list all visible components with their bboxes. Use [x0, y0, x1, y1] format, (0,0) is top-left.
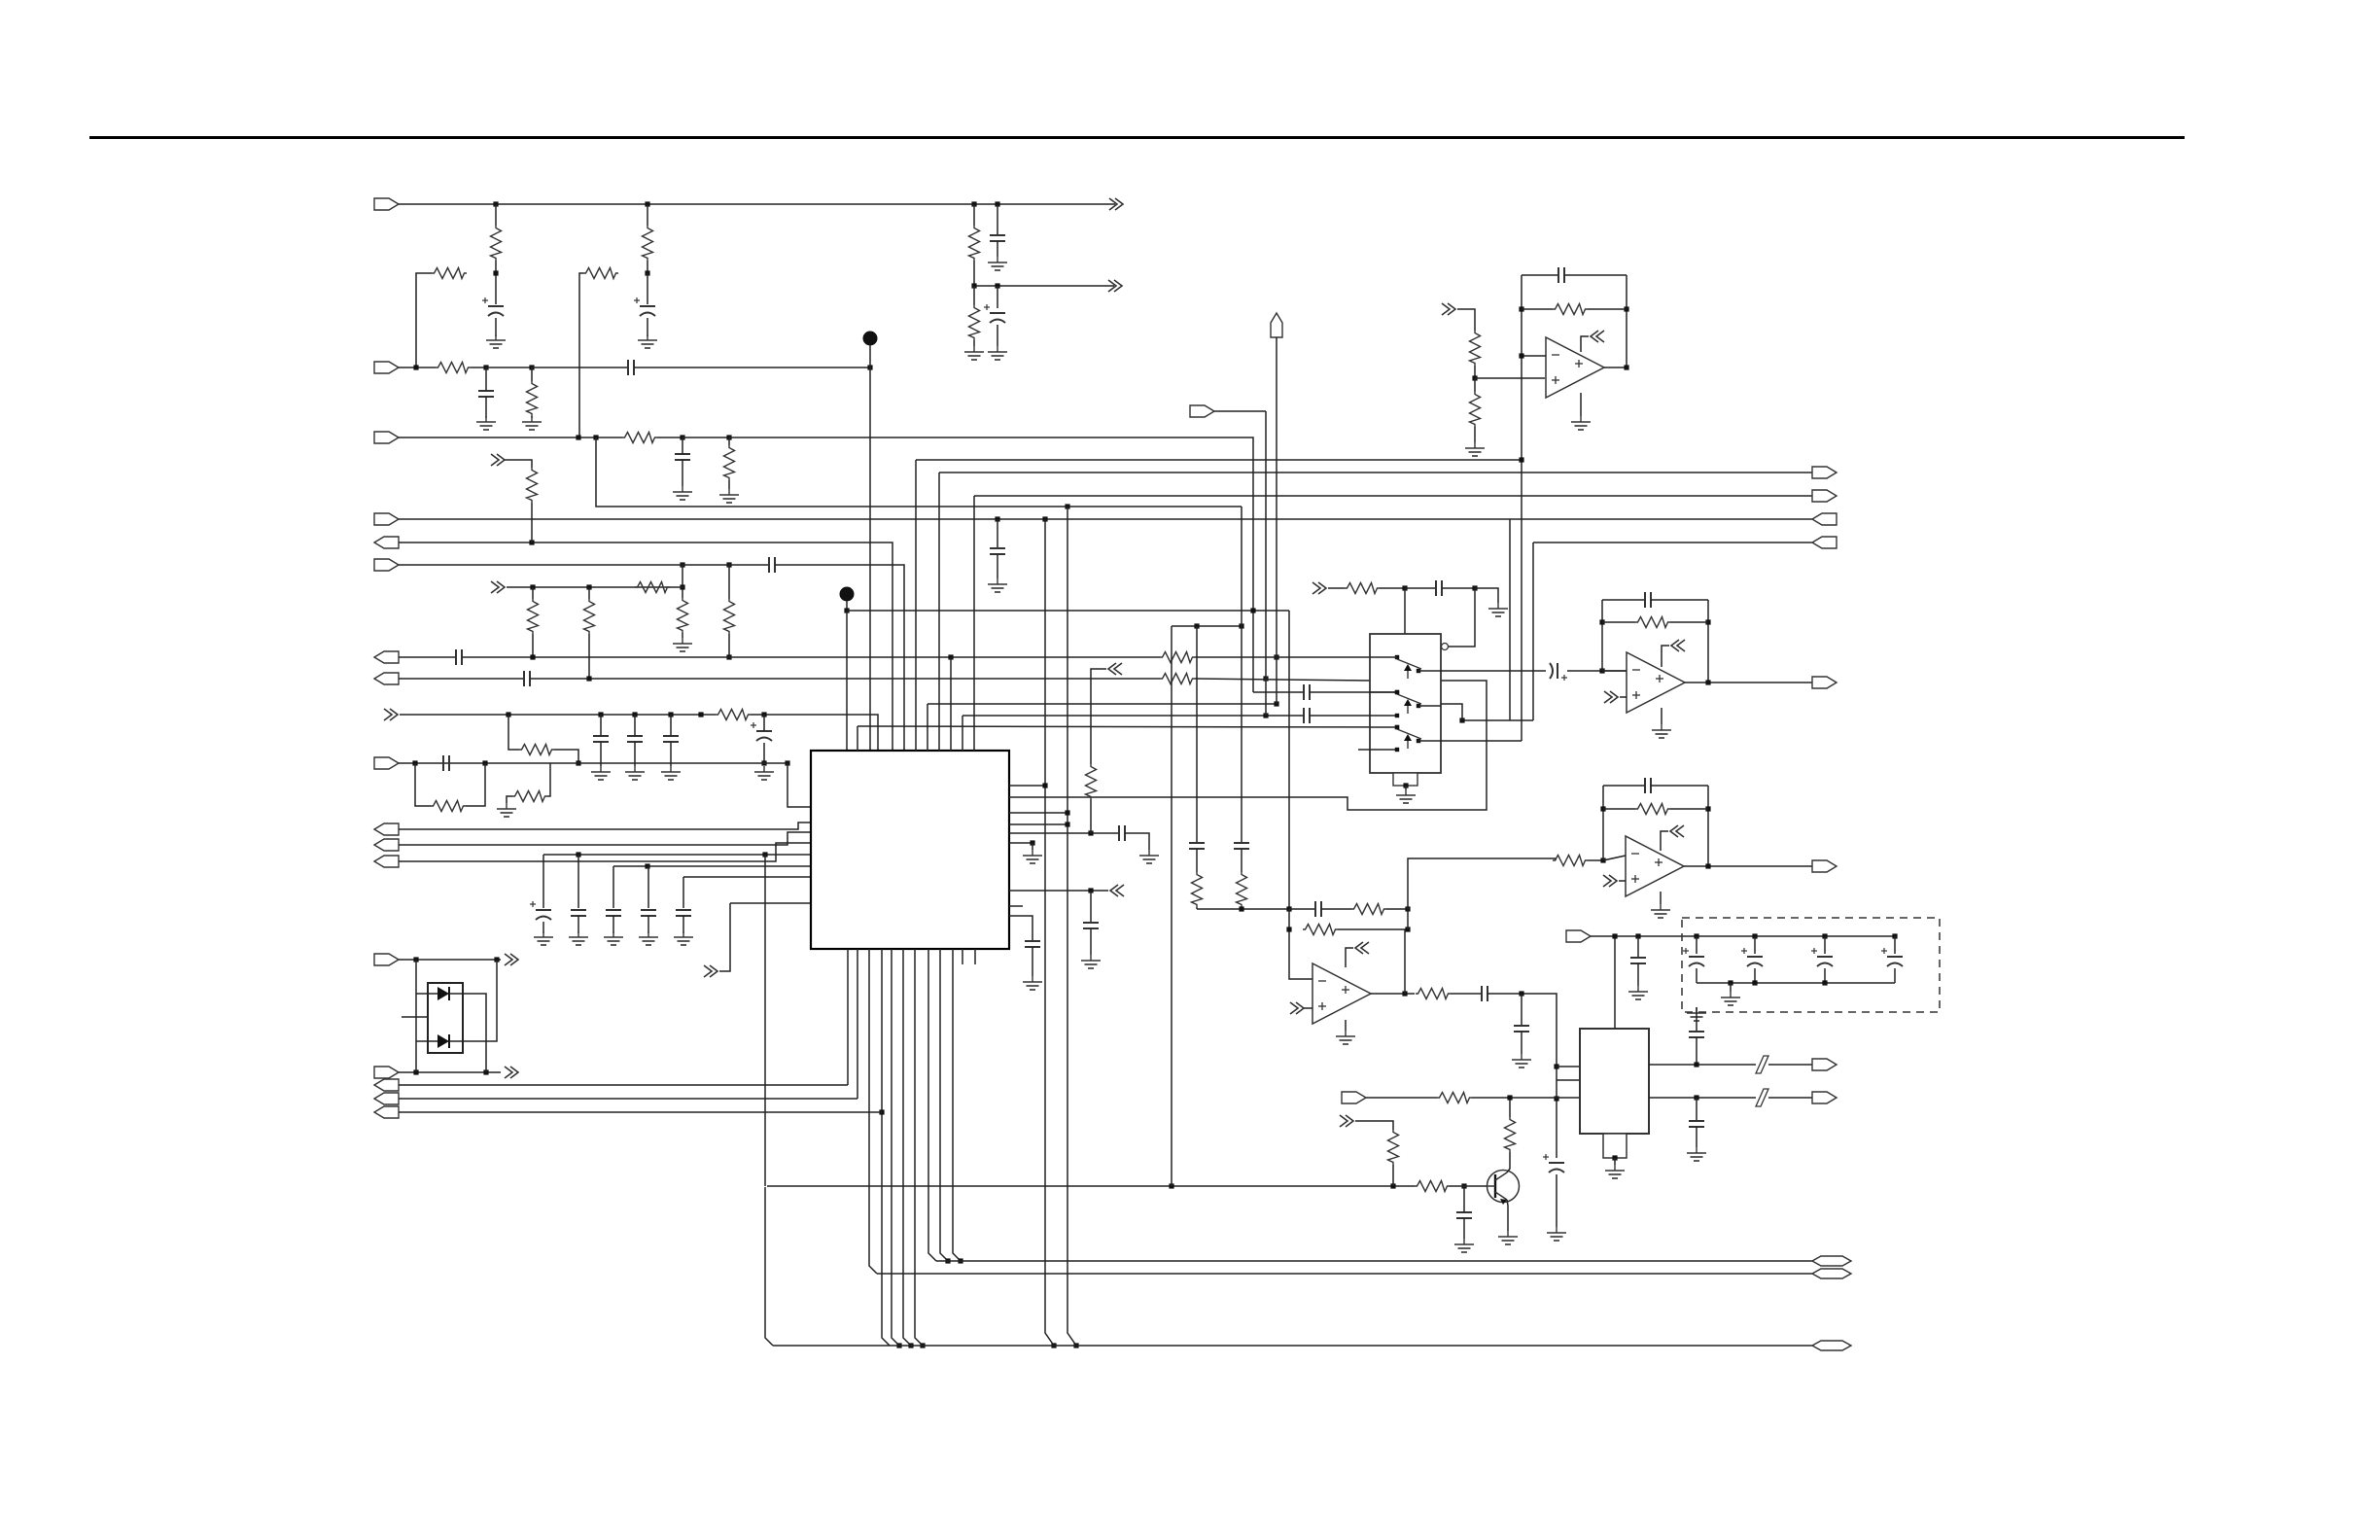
- U1 fb right vert: [1707, 600, 1709, 682]
- node n210b: [645, 201, 649, 206]
- resistor R10: [724, 445, 735, 480]
- wire cap5 drop: [682, 877, 684, 908]
- wire C14 stub: [763, 715, 765, 731]
- wire L534 bus: [399, 518, 1812, 520]
- node n676a: [530, 654, 535, 659]
- switch block U2: [1370, 634, 1441, 773]
- resistor R8: [527, 381, 538, 416]
- wire R7 to n378a: [471, 367, 486, 368]
- U0 fb left vert: [1521, 275, 1522, 460]
- wire pinB1003 nc: [974, 949, 976, 964]
- wire C7 gnd: [682, 460, 683, 486]
- resistor R25: [1351, 904, 1386, 915]
- wire L450 to switch col: [729, 437, 1253, 692]
- capacitor C42: [1558, 267, 1564, 283]
- ground G30: [1547, 1227, 1566, 1241]
- ground G28: [1498, 1231, 1518, 1244]
- node n676d: [726, 654, 731, 659]
- sw contact b1: [1417, 704, 1420, 708]
- wire C36 down: [1696, 1037, 1697, 1065]
- wire R11 to L558: [531, 503, 533, 542]
- wire R10 stub: [728, 437, 730, 445]
- wire L628: [847, 610, 1289, 612]
- wire busC left rise: [765, 1187, 773, 1346]
- v1302 flag20: [1265, 411, 1267, 716]
- wire out2 to flag: [1768, 1097, 1812, 1099]
- off-page connector A10: [1290, 1002, 1304, 1014]
- node n378z: [413, 365, 418, 369]
- power connector A17: [1671, 640, 1685, 651]
- wire F8 line: [399, 678, 523, 680]
- node n735d: [668, 712, 673, 717]
- ground G14: [754, 766, 774, 780]
- wire v1002b L510: [973, 496, 975, 751]
- R35 wire r: [1588, 308, 1627, 310]
- node n294b: [995, 283, 999, 288]
- wire v1326 from L628: [1288, 611, 1290, 909]
- node n891a: [645, 863, 649, 868]
- sw pin F stub: [1358, 749, 1397, 751]
- connector F7: [374, 651, 399, 663]
- resistor R32: [1345, 583, 1380, 594]
- U1 pwr: [1662, 646, 1669, 667]
- ground G16: [534, 931, 553, 945]
- ground G10: [673, 638, 692, 651]
- connector G8: [1812, 1092, 1837, 1103]
- capacitor C29: [1456, 1212, 1472, 1218]
- wire ecap0 stub: [1696, 936, 1697, 954]
- node n785c: [576, 760, 580, 765]
- wire U5 tab gnd: [1614, 1158, 1616, 1165]
- wire n867 gnd stub: [1032, 843, 1033, 850]
- bus slash S2: [1756, 1089, 1768, 1106]
- node n1022a: [1402, 991, 1407, 996]
- wire pin820 staircase: [1009, 681, 1487, 810]
- U3 -in stub: [1603, 856, 1626, 860]
- wire pin942: [1009, 916, 1032, 940]
- capacitor C36: [1689, 1032, 1704, 1037]
- wire busA y1297: [936, 1260, 1812, 1262]
- wire C12 stub: [634, 715, 636, 736]
- wire R3 stub: [647, 204, 648, 226]
- resistor R37: [1553, 856, 1588, 866]
- wire capline1: [543, 854, 811, 856]
- ground G18: [604, 931, 623, 945]
- wire L735: [400, 714, 716, 716]
- wire C19 gnd: [647, 916, 649, 933]
- node n867: [1030, 840, 1034, 845]
- node n1095b: [483, 1069, 488, 1074]
- node n785e: [761, 760, 766, 765]
- ground G29: [1605, 1165, 1625, 1178]
- wire R6 to gnd: [973, 340, 975, 346]
- wire R12 gnd: [682, 633, 683, 638]
- node n690a: [1599, 668, 1604, 673]
- node n644b: [1239, 623, 1243, 628]
- wire F19 line: [1591, 935, 1895, 937]
- wire v1577 down: [1532, 542, 1534, 720]
- sw contact a1: [1395, 690, 1399, 694]
- wire C16 gnd: [542, 922, 544, 933]
- wire pin867: [1009, 842, 1032, 844]
- connector F21 vertical flag: [1271, 313, 1282, 337]
- wire pinB929: [903, 949, 911, 1346]
- connector F5: [374, 537, 399, 548]
- sw contact a2: [1395, 725, 1399, 729]
- wire n605b gnd: [1475, 588, 1498, 603]
- node n963b: [1635, 933, 1640, 938]
- power connector A7: [1110, 885, 1124, 896]
- sw pin C wire: [1310, 691, 1397, 693]
- flag20 wire: [1214, 410, 1266, 412]
- wire pin808: [1009, 785, 1045, 787]
- ground G41: [988, 578, 1007, 592]
- connector F18: [1342, 1092, 1366, 1103]
- n389 to opamp: [1475, 377, 1545, 379]
- wire A13 to R32: [1328, 587, 1345, 589]
- node n210d: [995, 201, 999, 206]
- resistor R16: [1160, 652, 1195, 663]
- wire R16 to switch: [1195, 656, 1370, 658]
- U0 -in stub: [1522, 355, 1546, 357]
- wire blob1 to IC pin: [869, 345, 871, 751]
- ground G33 (inverted stub): [1687, 1007, 1706, 1021]
- wire R23 to L935: [1196, 907, 1198, 909]
- op-amp U4: [1312, 963, 1371, 1024]
- U3 pwr: [1661, 831, 1668, 851]
- sw pin stub in 1: [1370, 691, 1397, 693]
- node n366: [1519, 353, 1523, 358]
- node n605a: [1402, 585, 1407, 590]
- node n785d: [785, 760, 789, 765]
- wire C37 stub: [1696, 1098, 1697, 1120]
- wire C28 gnd: [1521, 1032, 1522, 1054]
- node n956b: [1405, 927, 1410, 931]
- wire C14 gnd: [763, 743, 765, 763]
- wire C26-R25: [1321, 908, 1351, 910]
- wire v523 to R19: [508, 715, 519, 750]
- wire L558 bus left: [399, 542, 892, 756]
- ground G3: [988, 257, 1007, 270]
- capacitor C35 electrolytic: [1881, 948, 1903, 966]
- capacitor C21: [1119, 825, 1125, 841]
- wire v882 top pin: [857, 726, 858, 751]
- wire R4 left leg: [579, 273, 583, 437]
- resistor R3: [643, 226, 653, 261]
- wire R10 gnd: [728, 480, 730, 489]
- sw pin C cap: [1253, 691, 1303, 693]
- node n1220c: [1461, 1183, 1466, 1188]
- wire R22 up power: [1091, 669, 1106, 764]
- wire v954 pin: [927, 704, 928, 751]
- node n378d: [1624, 365, 1628, 369]
- capacitor C31: [1630, 958, 1646, 963]
- wire ecap2 stub: [1824, 936, 1826, 954]
- ground G1: [486, 334, 506, 348]
- wire F7 line: [399, 656, 455, 658]
- wire F10 line: [399, 822, 811, 829]
- resistor R5: [969, 226, 980, 261]
- wire bridge d2 out: [449, 960, 497, 1041]
- ground G38: [1571, 416, 1591, 430]
- U1 out: [1685, 682, 1812, 683]
- wire ecap0 bot: [1696, 968, 1697, 983]
- wire v942 L473: [915, 460, 917, 751]
- off-page connector A4: [491, 581, 505, 593]
- resistor R7: [436, 363, 471, 373]
- wire blob2 stub: [846, 601, 848, 611]
- wire n450c-n450d: [682, 437, 729, 438]
- U1 +in stub: [1620, 696, 1627, 698]
- connector F1: [374, 198, 399, 210]
- wire v1277 chain: [1241, 507, 1242, 842]
- bus connector H3: [1812, 1341, 1851, 1350]
- wire U4 fb up: [1404, 929, 1406, 994]
- v1565 box to 762: [1521, 460, 1522, 741]
- diode D2: [437, 1034, 449, 1048]
- wire R29 to base: [1450, 1185, 1487, 1187]
- R34 stub: [1474, 378, 1476, 392]
- node n281b: [645, 270, 649, 275]
- capacitor C20: [676, 910, 691, 916]
- wire pinB917: [892, 949, 899, 1346]
- resistor R28: [1388, 1130, 1399, 1165]
- U1 gnd stub: [1661, 708, 1662, 724]
- wire L510 bus: [974, 495, 1812, 497]
- connector F17: [374, 1106, 399, 1118]
- wire pin836: [1009, 812, 1067, 814]
- wire v547 from arrow: [505, 460, 532, 468]
- connector F13: [374, 954, 399, 965]
- wire C11 stub: [600, 715, 602, 736]
- node n848: [1065, 822, 1069, 826]
- node nrail3: [1822, 980, 1827, 985]
- resistor R24: [1237, 872, 1247, 907]
- node n378a: [483, 365, 488, 369]
- wire pinB894 to busB: [869, 949, 877, 1274]
- resistor R27: [1416, 989, 1451, 999]
- node n935b: [1286, 906, 1291, 911]
- wire pinB907: [882, 949, 890, 1346]
- node n832b: [1705, 806, 1710, 811]
- node n935c: [1405, 906, 1410, 911]
- R36 wire r: [1670, 621, 1708, 623]
- wire R5 stub: [973, 204, 975, 226]
- wire v613 L521: [596, 437, 1242, 507]
- sw pin stub in 0: [1370, 656, 1397, 658]
- op-amp U0: [1546, 337, 1604, 398]
- node n605b: [1472, 585, 1477, 590]
- connector G3: [1812, 513, 1837, 525]
- capacitor C15: [443, 755, 449, 771]
- capacitor C11: [593, 736, 609, 742]
- wire F2 line: [399, 367, 436, 368]
- node n389: [1472, 375, 1477, 380]
- wire C30 gnd: [1556, 1174, 1557, 1227]
- node n1022b: [1519, 991, 1523, 996]
- wire cap4 drop: [647, 866, 649, 908]
- wire C5 stub: [485, 367, 487, 391]
- ground G27: [1454, 1239, 1474, 1252]
- wire R1-R2 node: [495, 261, 497, 273]
- wire C5 gnd stub: [485, 397, 487, 418]
- diode D1: [437, 987, 449, 1000]
- U0 pwr: [1581, 336, 1589, 352]
- connector G2: [1812, 490, 1837, 502]
- resistor R14: [528, 599, 539, 634]
- node n735e: [761, 712, 766, 717]
- wire U5 pin1 stub: [1557, 1066, 1581, 1067]
- node ncap1: [1752, 933, 1757, 938]
- wire pinB980 to busA: [953, 949, 961, 1261]
- bus slash S1: [1756, 1056, 1768, 1073]
- wire out1 to flag: [1768, 1064, 1812, 1066]
- wire C2 to gnd: [647, 318, 648, 336]
- node n450d: [726, 435, 731, 439]
- U1 fb left vert: [1601, 600, 1603, 671]
- wire R6 stub: [973, 286, 975, 305]
- node n735f: [698, 712, 703, 717]
- wire U4 gnd stub: [1345, 1020, 1347, 1031]
- wire fb v1448: [1407, 909, 1409, 929]
- node n604b: [586, 584, 591, 589]
- wire v990 pin: [962, 716, 963, 751]
- node busCj4: [908, 1343, 913, 1347]
- resistor R39: [724, 599, 735, 634]
- off-page connector A18: [1603, 875, 1617, 887]
- capacitor C45: [990, 548, 1005, 554]
- U3 out: [1684, 865, 1812, 867]
- power connector A6: [1108, 663, 1122, 675]
- capacitor C9: [456, 649, 462, 665]
- op-amp U1: [1627, 652, 1685, 713]
- wire F13 line: [399, 959, 501, 961]
- resistor R22: [1086, 764, 1097, 799]
- wire C11 gnd: [600, 742, 602, 766]
- sw contact c2: [1395, 714, 1399, 717]
- IC U5 regulator: [1580, 1029, 1649, 1134]
- node nrail1: [1728, 980, 1732, 985]
- off-page connector A16: [1604, 691, 1618, 703]
- wire R1 stub: [495, 204, 497, 226]
- wire v871 to IC: [846, 611, 848, 751]
- node n736a: [1263, 713, 1268, 717]
- switch arm 2: [1397, 694, 1421, 714]
- sw contact c3: [1395, 725, 1399, 729]
- wire A12 wire: [1355, 1121, 1393, 1130]
- wire capline4: [730, 902, 811, 904]
- node n318b: [1624, 306, 1628, 311]
- ground G36: [1396, 789, 1416, 803]
- ground G13: [661, 766, 681, 780]
- wire L735b: [751, 715, 878, 756]
- wire C38 to n605b: [1442, 587, 1475, 589]
- wire pin916: [1009, 890, 1108, 892]
- node n832a: [1600, 806, 1605, 811]
- wire F6 line b: [627, 564, 768, 566]
- wire n605 to C38: [1405, 587, 1435, 589]
- wire ecap3 bot: [1894, 968, 1896, 983]
- sw contact c4: [1395, 748, 1399, 752]
- wire n378a-n378b: [486, 367, 532, 368]
- node n885: [1600, 857, 1605, 862]
- node n741a: [1459, 717, 1464, 722]
- ground G26: [1336, 1031, 1355, 1044]
- ground G4: [964, 346, 984, 360]
- node n640a: [1599, 619, 1604, 624]
- node n986b: [494, 957, 499, 962]
- off-page connector A14: [1442, 303, 1455, 315]
- wire v1231 chain: [1196, 626, 1198, 842]
- top rule line: [89, 136, 2185, 139]
- junction blob B1: [863, 332, 878, 346]
- wire capline3: [683, 876, 811, 878]
- U3 in R wire: [1555, 858, 1557, 860]
- node n450b: [593, 435, 598, 439]
- capacitor C30 electrolytic: [1543, 1154, 1564, 1172]
- node n1129b: [1694, 1095, 1698, 1100]
- connector G4: [1812, 537, 1837, 548]
- wire capline2: [613, 865, 811, 867]
- node n724a: [1274, 701, 1278, 706]
- wire L604: [507, 586, 683, 588]
- capacitor C7: [675, 454, 690, 460]
- resistor R9: [622, 433, 657, 443]
- off-page connector A5: [384, 709, 398, 720]
- wire pin848: [1009, 823, 1067, 825]
- ground G12: [625, 766, 645, 780]
- wire F18 line: [1366, 1097, 1437, 1099]
- sw out3 route: [1441, 740, 1522, 742]
- R38 wire l: [1603, 808, 1635, 810]
- capacitor C17: [571, 910, 586, 916]
- U3 fb top b: [1651, 785, 1708, 787]
- U3 fb right vert: [1707, 786, 1709, 866]
- wire R31 to U5: [1472, 1097, 1581, 1099]
- resistor R26: [1303, 925, 1338, 935]
- connector G1: [1812, 467, 1837, 478]
- node n604a: [530, 584, 535, 589]
- wire R39 to L676: [728, 634, 730, 657]
- wire R15 to L698: [588, 634, 590, 679]
- wire pinB990 nc: [962, 949, 963, 964]
- node n450c: [680, 435, 684, 439]
- connector F12: [374, 856, 399, 867]
- wire C29 gnd: [1463, 1218, 1465, 1239]
- node n935a: [1239, 906, 1243, 911]
- U1 fb top b: [1651, 599, 1708, 601]
- node n318a: [1519, 306, 1523, 311]
- wire v1098 down to busC: [1067, 507, 1076, 1346]
- resistor R13: [635, 582, 670, 593]
- wire R5 to bus294: [973, 261, 975, 286]
- wire F17 line: [399, 1111, 882, 1113]
- wire C12 gnd: [634, 742, 636, 766]
- capacitor C25: [1234, 843, 1249, 849]
- node n628a: [844, 608, 849, 612]
- node n378c: [867, 365, 872, 369]
- connector F10: [374, 823, 399, 835]
- node n836: [1065, 810, 1069, 815]
- node n963a: [1612, 933, 1617, 938]
- wire R1 to C1: [495, 273, 497, 304]
- capacitor C38: [1436, 580, 1442, 596]
- U3 +in stub: [1619, 880, 1626, 882]
- node busAj2: [958, 1258, 962, 1263]
- connector F6: [374, 559, 399, 571]
- node n879a: [576, 852, 580, 857]
- wire L486 bus: [939, 472, 1812, 473]
